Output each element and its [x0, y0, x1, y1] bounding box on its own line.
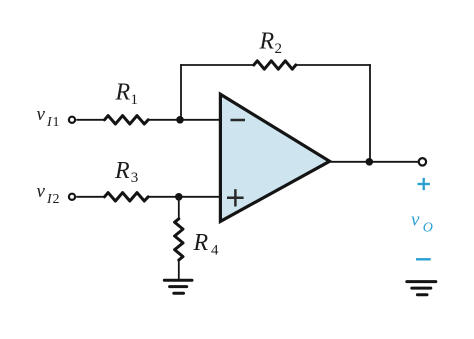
label vO [411, 210, 433, 236]
wire feedback top right [296, 64, 371, 66]
wire feedback left vertical [180, 64, 182, 120]
resistor R3 [105, 193, 149, 201]
resistor R2 [254, 61, 296, 69]
label R4 [193, 230, 220, 259]
label R2 [259, 29, 283, 57]
resistor R4 [175, 219, 183, 260]
svg-text:v: v [411, 210, 420, 231]
svg-text:1: 1 [53, 115, 60, 130]
wire op-amp output [331, 161, 419, 163]
wire R1 to op-amp [148, 119, 220, 121]
svg-text:1: 1 [131, 92, 139, 108]
node C (output junction) [366, 158, 374, 166]
ground (left, under R4) [164, 280, 192, 293]
wire R4 to ground [178, 260, 180, 279]
terminal vO [419, 158, 426, 165]
wire vI2 to R3 [76, 196, 105, 198]
terminal vI1 [69, 117, 75, 123]
node A (inverting input junction) [176, 116, 184, 124]
svg-text:v: v [37, 104, 46, 125]
label plus (output polarity) [418, 178, 430, 190]
ground (right, output reference) [407, 282, 436, 295]
svg-text:O: O [423, 221, 433, 236]
op-amp minus sign [231, 119, 246, 122]
label minus (output polarity) [416, 258, 431, 260]
svg-text:R: R [193, 230, 209, 256]
op-amp plus sign [227, 189, 244, 206]
svg-text:3: 3 [131, 170, 139, 186]
op-amp U1 [220, 94, 329, 221]
wire feedback top left [180, 64, 254, 66]
resistor R1 [105, 116, 149, 124]
svg-text:4: 4 [211, 243, 219, 259]
label R3 [114, 158, 138, 186]
svg-text:R: R [114, 158, 130, 184]
wire R3 to op-amp [148, 196, 220, 198]
label R1 [115, 80, 139, 108]
label vI1 [37, 104, 60, 130]
svg-text:v: v [37, 181, 46, 202]
wire node B to R4 [178, 197, 180, 220]
svg-text:R: R [259, 29, 275, 55]
wire feedback right vertical [369, 64, 371, 162]
terminal vI2 [69, 194, 75, 200]
svg-text:2: 2 [275, 41, 283, 57]
svg-text:2: 2 [53, 192, 60, 207]
svg-text:R: R [115, 80, 131, 106]
label vI2 [37, 181, 60, 207]
node B (noninverting input junction) [175, 193, 183, 201]
wire vI1 to R1 [76, 119, 105, 121]
